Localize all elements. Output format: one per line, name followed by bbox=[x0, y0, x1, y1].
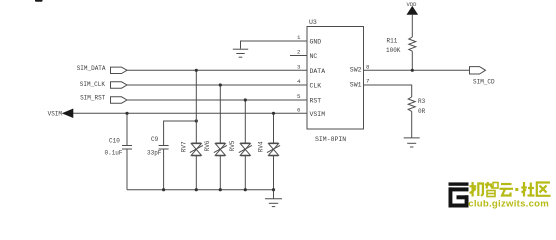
svg-text:club.gizwits.com: club.gizwits.com bbox=[468, 199, 549, 210]
wire RV5 column bbox=[244, 100, 246, 190]
varistor RV4 bbox=[267, 143, 280, 156]
wire SIM_DATA net bbox=[127, 69, 307, 71]
char 云 bbox=[500, 184, 514, 196]
char 智 bbox=[485, 182, 498, 197]
wire SIM_RST net bbox=[127, 99, 307, 101]
svg-text:0.1uF: 0.1uF bbox=[105, 150, 123, 157]
svg-text:SIM_CD: SIM_CD bbox=[473, 78, 495, 85]
wire R3 to ground bbox=[411, 111, 413, 137]
wire VSIM net bbox=[73, 112, 308, 114]
svg-text:CLK: CLK bbox=[310, 83, 322, 90]
svg-text:2: 2 bbox=[297, 49, 301, 56]
svg-text:RV4: RV4 bbox=[257, 141, 264, 152]
svg-text:5: 5 bbox=[297, 93, 301, 100]
text labels bbox=[309, 19, 362, 143]
resistor R11 bbox=[409, 37, 416, 51]
svg-text:SIM-8PIN: SIM-8PIN bbox=[315, 136, 346, 143]
wire C10 bottom bbox=[126, 149, 128, 190]
wire SIM_CLK net bbox=[127, 84, 307, 86]
svg-text:RV5: RV5 bbox=[229, 140, 236, 151]
middle dot bbox=[515, 188, 518, 191]
svg-text:SIM_CLK: SIM_CLK bbox=[80, 81, 106, 88]
svg-text:VSIM: VSIM bbox=[310, 111, 326, 118]
svg-text:SW1: SW1 bbox=[350, 81, 362, 88]
svg-text:0R: 0R bbox=[418, 108, 426, 115]
capacitor C9 bbox=[159, 146, 169, 150]
svg-text:VSIM: VSIM bbox=[48, 110, 63, 117]
svg-text:NC: NC bbox=[310, 53, 318, 60]
node junction DATA-RV7 bbox=[195, 69, 198, 72]
wire pin8 SW2 to SIM_CD bbox=[364, 69, 470, 71]
svg-text:R11: R11 bbox=[387, 38, 398, 45]
node junction RST-RV5 bbox=[244, 98, 247, 101]
ground bbox=[404, 138, 420, 147]
node junction VSIM-C10 bbox=[125, 112, 128, 115]
svg-text:100K: 100K bbox=[386, 47, 401, 54]
svg-text:SW2: SW2 bbox=[350, 67, 362, 74]
IC U1 box bbox=[307, 27, 364, 130]
watermark logo G bbox=[449, 182, 469, 207]
svg-text:U3: U3 bbox=[309, 19, 317, 26]
ground bbox=[233, 49, 248, 57]
power VDD symbol bbox=[407, 7, 417, 37]
wire R11 to pin8 bbox=[411, 51, 413, 70]
svg-text:C10: C10 bbox=[109, 138, 120, 145]
wire bottom ground rail bbox=[127, 189, 274, 191]
svg-text:RV7: RV7 bbox=[181, 141, 188, 152]
connector SIM_CD bbox=[470, 67, 486, 74]
svg-text:RV6: RV6 bbox=[204, 140, 211, 151]
watermark chinese text 机智云·社区 bbox=[470, 182, 551, 197]
svg-text:7: 7 bbox=[366, 77, 370, 84]
wire RV6 column bbox=[219, 85, 221, 190]
ground bbox=[265, 199, 282, 207]
artifact mark top-left bbox=[35, 0, 43, 2]
connector SIM_DATA bbox=[111, 67, 128, 73]
svg-text:SIM_RST: SIM_RST bbox=[80, 95, 106, 102]
wire pin7 SW1 down to R3 bbox=[364, 85, 412, 97]
capacitor C10 bbox=[122, 146, 132, 150]
svg-text:1: 1 bbox=[297, 34, 301, 41]
svg-text:4: 4 bbox=[297, 78, 301, 85]
varistor RV7 bbox=[190, 143, 203, 156]
node junction CLK-RV6 bbox=[219, 83, 222, 86]
svg-text:RST: RST bbox=[310, 98, 322, 105]
node junction C9-RV7 bbox=[195, 119, 198, 122]
svg-text:6: 6 bbox=[297, 106, 301, 113]
connector SIM_CLK bbox=[111, 82, 128, 88]
svg-text:DATA: DATA bbox=[310, 68, 326, 75]
wire pin1 GND bbox=[241, 41, 308, 49]
varistor RV5 bbox=[239, 143, 252, 156]
svg-text:GND: GND bbox=[310, 39, 322, 46]
svg-text:SIM_DATA: SIM_DATA bbox=[77, 65, 106, 72]
svg-text:3: 3 bbox=[297, 63, 301, 70]
node VSIM arrow bbox=[63, 109, 73, 117]
svg-text:R3: R3 bbox=[418, 98, 426, 105]
svg-text:33pF: 33pF bbox=[147, 150, 162, 157]
svg-text:VDD: VDD bbox=[407, 1, 418, 8]
wire C9 top jog bbox=[164, 121, 197, 145]
varistor RV6 bbox=[214, 143, 227, 156]
node junction VSIM-RV4 bbox=[272, 112, 275, 115]
node rail junctions bbox=[162, 188, 275, 191]
wire RV7 column bbox=[195, 70, 197, 189]
wire C9 bottom bbox=[163, 149, 165, 190]
resistor R3 bbox=[408, 97, 415, 111]
char 机 bbox=[470, 182, 483, 197]
svg-text:8: 8 bbox=[366, 63, 370, 70]
char 区 bbox=[537, 183, 551, 196]
node junction pin8 bbox=[411, 69, 414, 72]
wire pin2 NC stub bbox=[290, 55, 307, 57]
char 社 bbox=[521, 182, 534, 197]
wire RV4 column bbox=[273, 113, 275, 189]
svg-text:C9: C9 bbox=[151, 136, 159, 143]
connector SIM_RST bbox=[111, 97, 128, 103]
wire rail to ground bbox=[273, 190, 275, 199]
wire C10 top bbox=[126, 113, 128, 145]
